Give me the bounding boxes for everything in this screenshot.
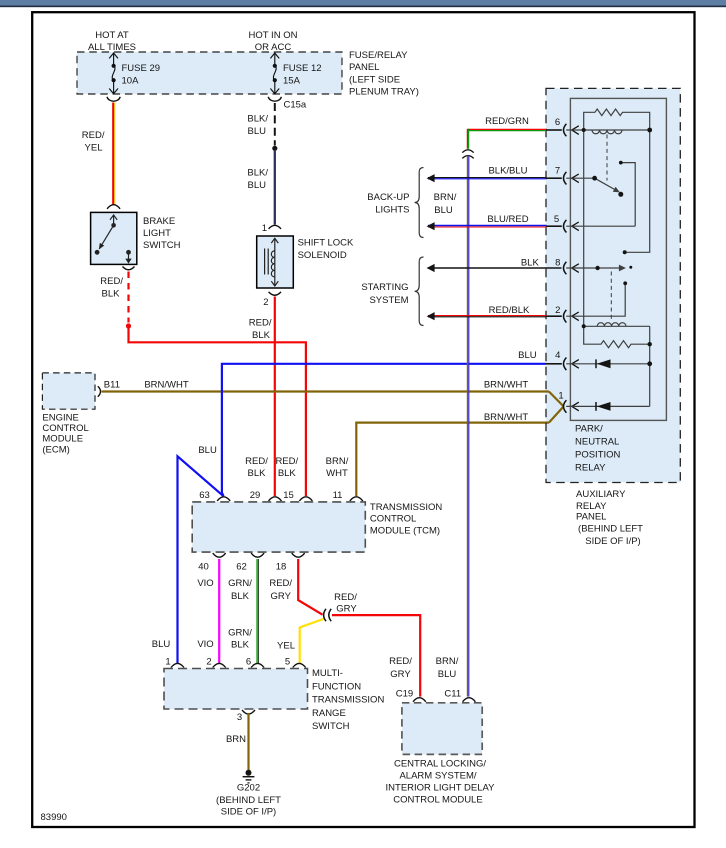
svg-text:BRN/: BRN/	[434, 192, 457, 203]
svg-text:BLU: BLU	[152, 639, 171, 650]
pin 6 line with coil	[566, 129, 650, 131]
svg-text:BLU: BLU	[518, 350, 537, 361]
pin 5 line	[566, 225, 635, 227]
engine control module box	[42, 373, 95, 409]
wire BLK/BLU dashed below C15a	[274, 103, 276, 146]
svg-text:RED/: RED/	[334, 592, 357, 603]
svg-text:STARTING: STARTING	[361, 282, 408, 293]
svg-text:1: 1	[165, 657, 170, 668]
inline connector pair	[324, 609, 326, 621]
svg-text:15A: 15A	[283, 76, 301, 87]
connector C15a	[268, 97, 281, 101]
wire RED/BLK starting system	[428, 315, 547, 317]
wire RED/GRN to relay pin 6	[468, 128, 547, 130]
relay junction dots	[582, 128, 586, 132]
relay coil 2	[584, 325, 650, 327]
svg-text:RED/: RED/	[269, 578, 292, 589]
svg-text:BLU/RED: BLU/RED	[487, 214, 528, 225]
svg-text:63: 63	[199, 490, 210, 501]
wire RED/GRY connector to C19	[332, 615, 420, 697]
fuse 12 15A	[270, 53, 279, 94]
svg-text:FUNCTION: FUNCTION	[312, 681, 361, 692]
svg-text:BRAKE: BRAKE	[143, 216, 175, 227]
svg-text:GRY: GRY	[390, 669, 411, 680]
svg-text:WHT: WHT	[326, 468, 348, 479]
svg-text:BRN/WHT: BRN/WHT	[484, 380, 529, 391]
contact to pin 2	[566, 283, 625, 316]
svg-text:BLK/: BLK/	[247, 114, 268, 125]
svg-text:15: 15	[283, 490, 294, 501]
pin 1 connector of solenoid	[269, 225, 281, 229]
svg-text:(BEHIND LEFT: (BEHIND LEFT	[216, 795, 281, 806]
svg-text:PARK/: PARK/	[575, 424, 603, 435]
svg-text:RELAY: RELAY	[575, 462, 606, 473]
relay resistor 1 loop	[584, 109, 650, 130]
svg-text:PANEL: PANEL	[576, 512, 606, 523]
brace back-up lights	[415, 168, 424, 238]
relay pin 1	[564, 400, 567, 413]
svg-text:BLK: BLK	[102, 289, 121, 300]
wire BLK/BLU back-up lights	[428, 177, 547, 179]
svg-text:GRY: GRY	[336, 604, 357, 615]
svg-text:PANEL: PANEL	[349, 62, 379, 73]
svg-text:SWITCH: SWITCH	[312, 721, 350, 732]
svg-text:TRANSMISSION: TRANSMISSION	[312, 695, 384, 706]
wire BLK starting system	[428, 267, 562, 269]
svg-text:MODULE: MODULE	[42, 434, 83, 445]
svg-text:BLK: BLK	[252, 330, 271, 341]
svg-text:SWITCH: SWITCH	[143, 240, 181, 251]
connector above brake light switch	[107, 205, 120, 209]
svg-text:AUXILIARY: AUXILIARY	[576, 489, 626, 500]
svg-text:LIGHTS: LIGHTS	[375, 205, 409, 216]
BRN/WHT chevron into relay pin 1	[549, 392, 563, 407]
switch arm arrow pin 8	[619, 265, 626, 272]
pin 2 connector of solenoid	[269, 292, 281, 295]
relay linkage dashed 2	[610, 272, 612, 320]
pin 8 line	[566, 267, 597, 269]
svg-text:RED/: RED/	[389, 656, 412, 667]
TCM pin connectors top	[217, 497, 363, 501]
wire BLK/BLU to shift lock solenoid	[273, 151, 275, 225]
svg-text:RED/: RED/	[82, 130, 105, 141]
relay resistor 2 loop	[584, 326, 650, 347]
central locking / alarm system module box	[402, 703, 482, 755]
svg-text:POSITION: POSITION	[575, 449, 621, 460]
svg-text:B11: B11	[104, 380, 120, 391]
svg-text:5: 5	[554, 214, 559, 225]
svg-text:FUSE/RELAY: FUSE/RELAY	[349, 50, 408, 61]
junction	[272, 146, 277, 151]
pin B11 connector	[98, 386, 101, 396]
right rail lower	[649, 344, 651, 406]
svg-text:RED/: RED/	[275, 456, 298, 467]
wire BRN/BLU down to C11	[467, 156, 469, 697]
upper contact to pin 5	[621, 163, 635, 227]
svg-text:(ECM): (ECM)	[42, 444, 69, 455]
svg-text:BRN/: BRN/	[326, 456, 349, 467]
wire RED/BLK dashed from brake switch	[127, 272, 129, 323]
svg-text:G202: G202	[237, 782, 260, 793]
relay pin 4	[546, 363, 562, 365]
svg-text:18: 18	[276, 562, 287, 573]
connector under fuse 29	[107, 97, 120, 101]
diode pin 4	[595, 359, 597, 368]
svg-text:C19: C19	[396, 688, 413, 699]
connector below brake light switch	[123, 267, 135, 270]
svg-text:SOLENOID: SOLENOID	[298, 250, 347, 261]
svg-text:7: 7	[555, 166, 560, 177]
svg-text:ALARM SYSTEM/: ALARM SYSTEM/	[399, 771, 476, 782]
brake light switch	[91, 212, 137, 264]
svg-text:BLU: BLU	[438, 669, 457, 680]
svg-text:YEL: YEL	[85, 143, 103, 154]
switch pin 3 connector	[242, 710, 255, 714]
svg-text:2: 2	[263, 297, 268, 308]
svg-text:BLU: BLU	[248, 126, 267, 137]
svg-text:RANGE: RANGE	[312, 708, 346, 719]
switch arm pin 8	[598, 267, 621, 269]
pin 4 line	[566, 363, 650, 365]
svg-text:62: 62	[236, 562, 247, 573]
auxiliary relay panel box	[546, 88, 680, 482]
svg-text:BLK: BLK	[231, 591, 250, 602]
svg-text:VIO: VIO	[197, 639, 213, 650]
svg-text:(LEFT SIDE: (LEFT SIDE	[349, 74, 400, 85]
svg-text:C11: C11	[444, 688, 461, 699]
svg-text:SIDE OF I/P): SIDE OF I/P)	[585, 536, 640, 547]
svg-text:2: 2	[555, 305, 560, 316]
svg-text:BRN/WHT: BRN/WHT	[484, 412, 529, 423]
svg-text:BRN: BRN	[226, 734, 246, 745]
wire BRN switch 3 to ground	[247, 713, 249, 771]
svg-text:4: 4	[555, 350, 560, 361]
svg-text:GRY: GRY	[270, 591, 291, 602]
svg-text:BRN/: BRN/	[436, 656, 459, 667]
TCM pin connectors bottom	[213, 553, 305, 557]
svg-text:HOT IN ON: HOT IN ON	[249, 30, 298, 41]
svg-text:ENGINE: ENGINE	[42, 412, 78, 423]
svg-text:1: 1	[558, 391, 563, 402]
wire BLU TCM pin 63 to range switch pin 1	[178, 456, 224, 663]
svg-text:2: 2	[206, 657, 211, 668]
svg-text:OR ACC: OR ACC	[255, 42, 292, 53]
svg-text:5: 5	[285, 657, 290, 668]
pin 7 line	[566, 177, 594, 179]
svg-text:CONTROL MODULE: CONTROL MODULE	[393, 795, 482, 806]
svg-text:RED/: RED/	[100, 276, 123, 287]
wire VIO TCM 40 to switch 2	[218, 559, 220, 663]
svg-text:11: 11	[333, 490, 343, 501]
svg-text:GRN/: GRN/	[228, 627, 252, 638]
svg-text:6: 6	[246, 657, 251, 668]
fuse/relay panel box	[77, 52, 342, 94]
svg-text:MODULE (TCM): MODULE (TCM)	[370, 525, 440, 536]
svg-text:RELAY: RELAY	[576, 501, 607, 512]
shift lock solenoid	[257, 236, 294, 288]
switch arm arrow pin 7	[613, 187, 620, 193]
wire RED/BLK to TCM pin 15	[129, 326, 306, 496]
svg-text:BLK/BLU: BLK/BLU	[488, 166, 527, 177]
wire RED/BLK solenoid to TCM pin 29	[274, 297, 276, 497]
inline connector to BRN/BLU	[462, 150, 473, 153]
relay pin 6	[546, 129, 562, 131]
svg-text:SYSTEM: SYSTEM	[369, 295, 408, 306]
relay coil 1	[592, 130, 622, 134]
svg-text:BACK-UP: BACK-UP	[367, 192, 409, 203]
svg-text:PLENUM TRAY): PLENUM TRAY)	[349, 87, 419, 98]
svg-text:BLK: BLK	[278, 468, 297, 479]
svg-text:INTERIOR LIGHT DELAY: INTERIOR LIGHT DELAY	[386, 783, 496, 794]
svg-text:VIO: VIO	[197, 578, 213, 589]
svg-text:FUSE 12: FUSE 12	[283, 63, 322, 74]
wire BRN/WHT lower branch to TCM pin 11	[356, 423, 549, 496]
svg-text:HOT AT: HOT AT	[95, 30, 129, 41]
svg-text:FUSE 29: FUSE 29	[122, 63, 161, 74]
svg-text:ALL TIMES: ALL TIMES	[88, 42, 136, 53]
central locking pin connectors	[413, 698, 426, 702]
diode pin 1	[595, 402, 597, 411]
svg-text:6: 6	[555, 117, 560, 128]
svg-text:(BEHIND LEFT: (BEHIND LEFT	[578, 524, 643, 535]
svg-text:83990: 83990	[41, 812, 67, 823]
switch arm pin 7	[595, 178, 617, 190]
relay pin 8	[564, 262, 567, 275]
switch pin connectors top	[171, 663, 306, 667]
svg-text:YEL: YEL	[277, 641, 295, 652]
left rail	[583, 130, 585, 326]
svg-text:RED/GRN: RED/GRN	[485, 116, 529, 127]
svg-text:1: 1	[262, 223, 267, 234]
svg-text:GRN/: GRN/	[228, 578, 252, 589]
svg-text:SIDE OF I/P): SIDE OF I/P)	[221, 807, 276, 818]
brace starting system	[415, 257, 424, 326]
wire BLU relay pin4 to TCM pin 63	[222, 364, 546, 496]
svg-text:SHIFT LOCK: SHIFT LOCK	[298, 238, 354, 249]
relay linkage dashed 1	[606, 135, 608, 181]
auxiliary relay panel fill	[546, 88, 680, 482]
svg-text:29: 29	[250, 490, 261, 501]
wire YEL connector to switch pin 5	[300, 619, 324, 663]
svg-text:40: 40	[198, 562, 209, 573]
svg-text:NEUTRAL: NEUTRAL	[575, 437, 619, 448]
junction	[126, 323, 131, 328]
wire RED/YEL fuse29 to brake light switch	[112, 103, 114, 206]
relay pin 7	[546, 177, 562, 179]
svg-text:MULTI-: MULTI-	[312, 668, 343, 679]
transmission control module box	[192, 502, 365, 552]
svg-text:LIGHT: LIGHT	[143, 228, 171, 239]
svg-text:8: 8	[555, 258, 560, 269]
relay pin 2	[546, 315, 562, 317]
svg-text:CONTROL: CONTROL	[42, 423, 88, 434]
relay internal wiring	[566, 109, 650, 406]
svg-text:10A: 10A	[122, 76, 140, 87]
wire GRN/BLK TCM 62 to switch 6	[256, 559, 258, 663]
svg-text:RED/: RED/	[249, 318, 272, 329]
svg-text:BLU: BLU	[434, 205, 453, 216]
svg-text:BLK: BLK	[521, 258, 540, 269]
svg-text:BLU: BLU	[198, 445, 217, 456]
top browser bar	[0, 0, 726, 5]
svg-text:C15a: C15a	[284, 100, 307, 111]
svg-text:TRANSMISSION: TRANSMISSION	[370, 502, 442, 513]
svg-text:RED/BLK: RED/BLK	[489, 305, 530, 316]
svg-text:BRN/WHT: BRN/WHT	[144, 380, 189, 391]
svg-text:BLK: BLK	[231, 640, 250, 651]
svg-text:BLK/: BLK/	[247, 168, 268, 179]
park/neutral position relay inner box	[570, 98, 666, 420]
wire RED/GRY TCM 18 to inline connector	[298, 559, 322, 615]
svg-text:CONTROL: CONTROL	[370, 514, 416, 525]
wire BLU/RED back-up lights	[428, 225, 547, 227]
svg-text:RED/: RED/	[245, 456, 268, 467]
svg-text:CENTRAL LOCKING/: CENTRAL LOCKING/	[394, 759, 486, 770]
right rail upper	[625, 130, 650, 252]
svg-text:BLK: BLK	[248, 468, 267, 479]
relay pin 5	[546, 225, 562, 227]
wire BRN/WHT ECM to relay pin 1	[102, 390, 549, 392]
pin 1 line	[566, 405, 650, 407]
ground G202	[246, 770, 252, 776]
svg-text:3: 3	[237, 712, 242, 723]
svg-text:BLU: BLU	[248, 180, 267, 191]
fuse 29 10A	[109, 53, 118, 94]
multi-function transmission range switch box	[164, 669, 308, 710]
